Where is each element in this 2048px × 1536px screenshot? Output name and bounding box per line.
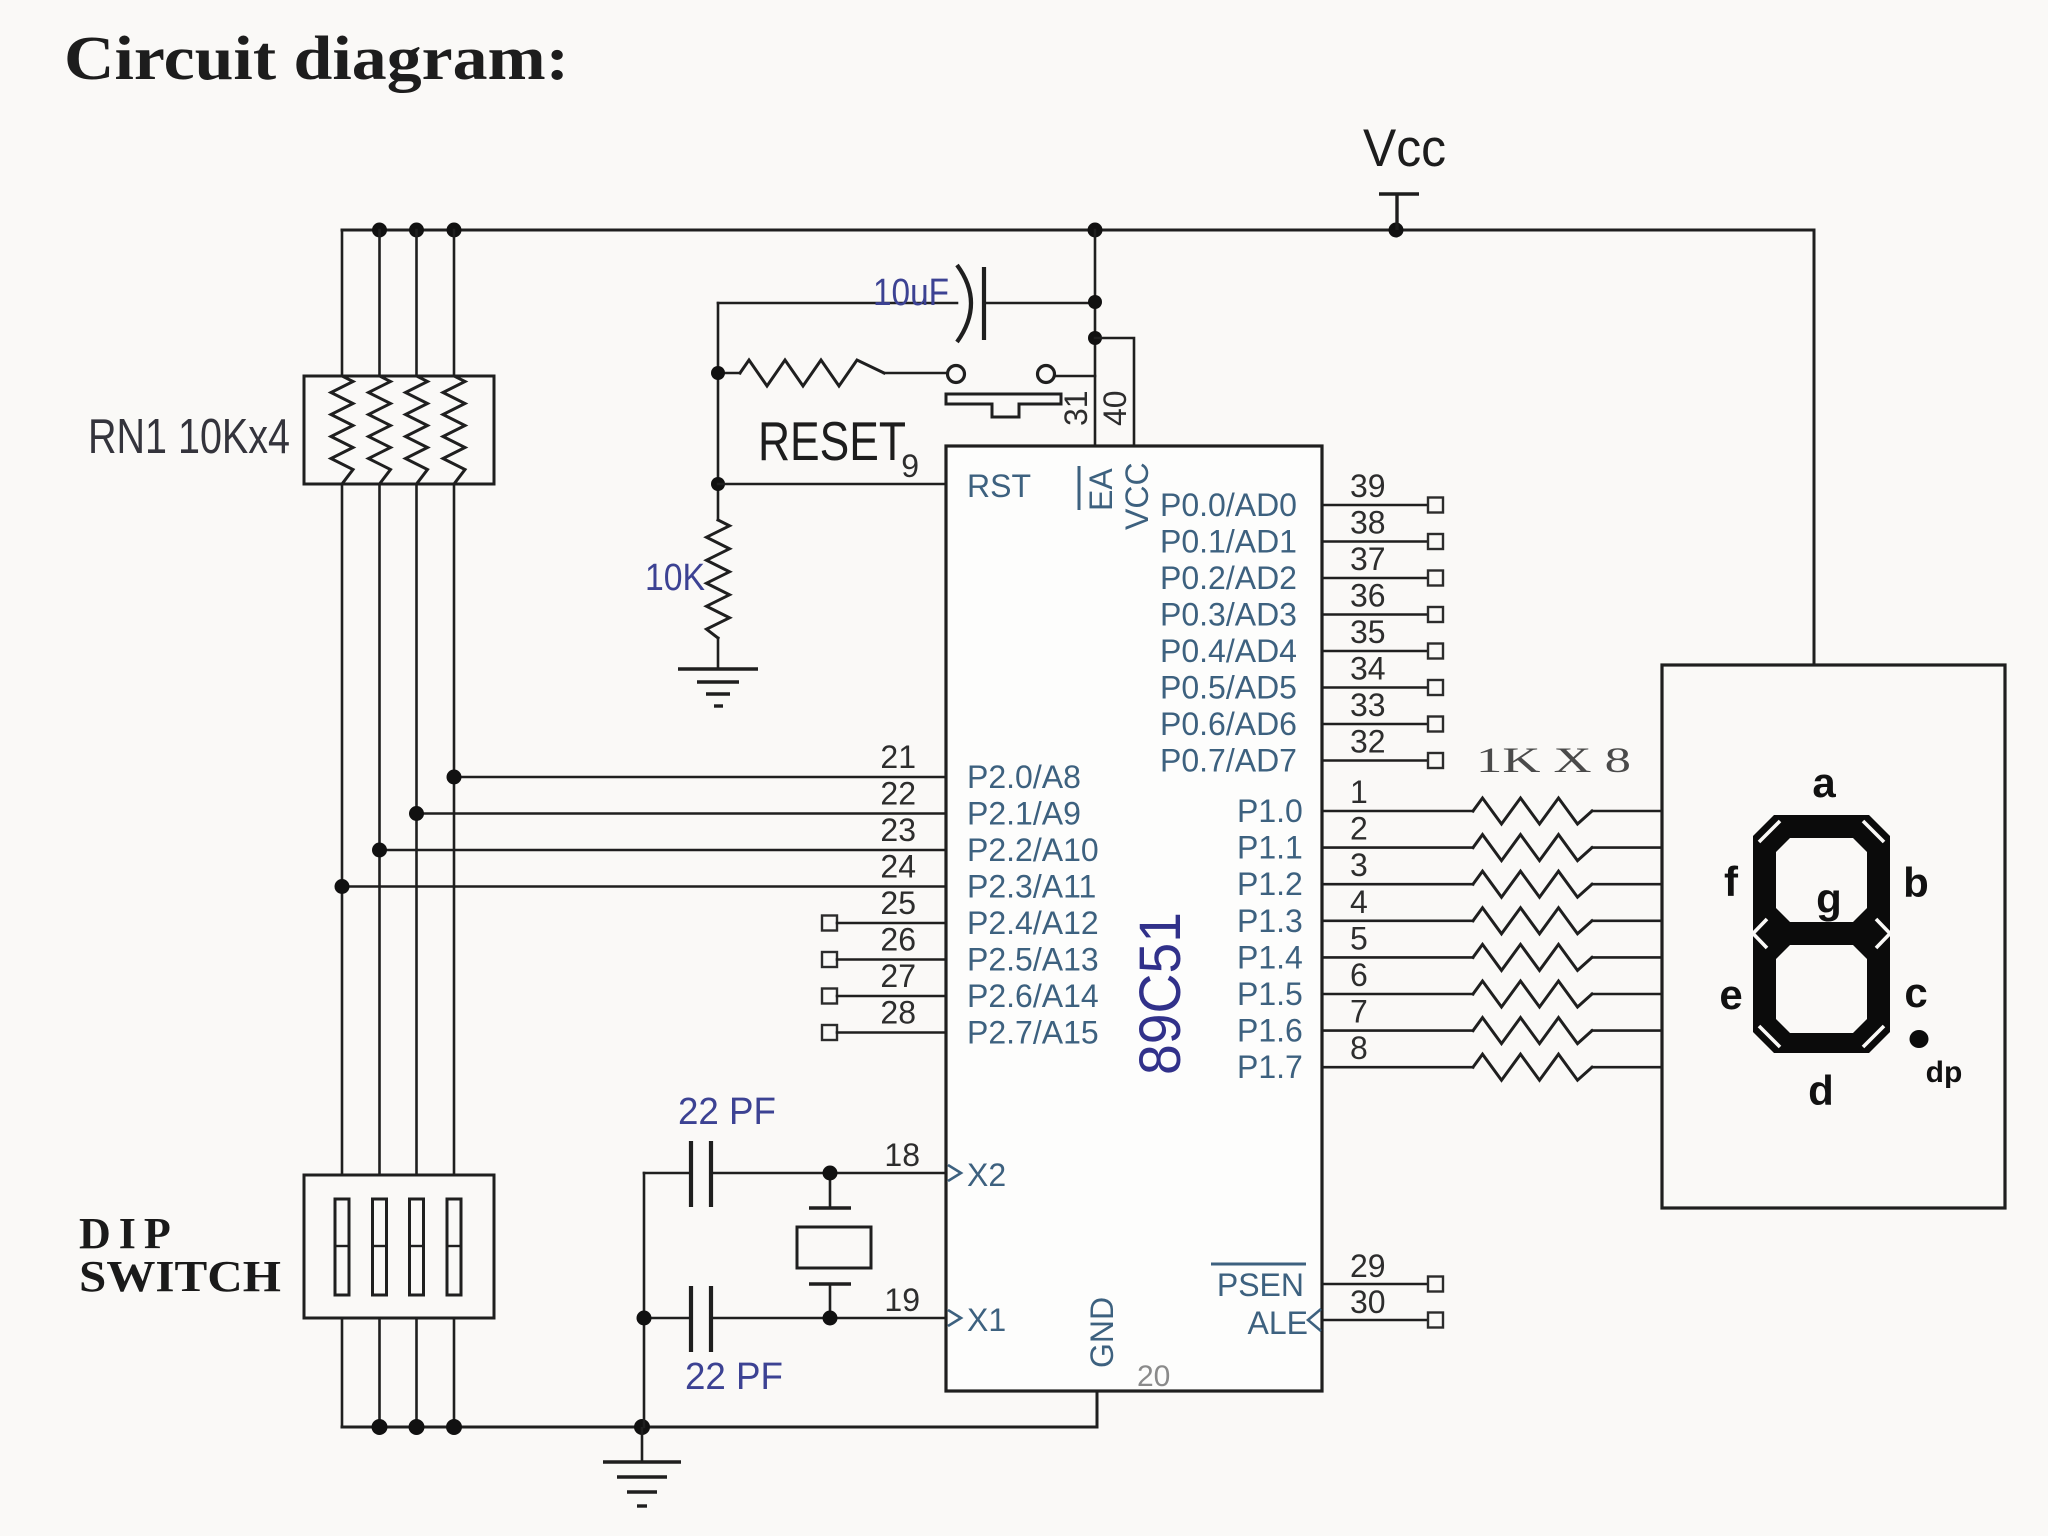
svg-text:P2.7/A15: P2.7/A15 — [967, 1015, 1099, 1051]
wire resistor row 5 to display — [1592, 956, 1662, 959]
wire EA pin31 vertical — [1094, 230, 1097, 446]
node Vcc bus junction 1 — [372, 223, 387, 238]
pin 7 P1.6 lead — [1237, 994, 1473, 1049]
svg-text:P0.4/AD4: P0.4/AD4 — [1160, 633, 1297, 669]
wire column 4 DIP switch to ground bus — [453, 1318, 456, 1427]
svg-text:P1.7: P1.7 — [1237, 1049, 1303, 1085]
svg-text:P0.6/AD6: P0.6/AD6 — [1160, 706, 1297, 742]
pin 2 P1.1 lead — [1237, 811, 1473, 866]
svg-text:31: 31 — [1058, 390, 1094, 426]
node Vcc bus junction 5 — [1389, 223, 1404, 238]
node column 2 / pin23 junction — [372, 843, 387, 858]
svg-text:P1.3: P1.3 — [1237, 903, 1303, 939]
wire resistor row 2 to display — [1592, 846, 1662, 849]
wire ground bus (bottom horizontal) — [342, 1391, 1097, 1427]
pin 6 P1.5 lead — [1237, 957, 1473, 1012]
svg-text:20: 20 — [1137, 1360, 1170, 1393]
svg-text:P0.0/AD0: P0.0/AD0 — [1160, 487, 1297, 523]
svg-text:d: d — [1808, 1067, 1834, 1114]
svg-text:RST: RST — [967, 468, 1031, 504]
resistor 1K (row 1) — [1473, 798, 1592, 824]
node Vcc bus junction 2 — [409, 223, 424, 238]
wire resistor row 6 to display — [1592, 993, 1662, 996]
resistor RN1 element 4 — [443, 376, 465, 484]
svg-text:a: a — [1812, 759, 1836, 806]
svg-text:P1.6: P1.6 — [1237, 1013, 1303, 1049]
svg-text:P0.2/AD2: P0.2/AD2 — [1160, 560, 1297, 596]
svg-text:Circuit diagram:: Circuit diagram: — [64, 25, 569, 93]
resistor RN1 element 1 — [331, 376, 353, 484]
pin 30 ALE lead and pad — [1248, 1284, 1443, 1341]
pin 18 X2 — [884, 1137, 1006, 1193]
svg-text:Vcc: Vcc — [1363, 119, 1446, 178]
svg-text:39: 39 — [1350, 468, 1386, 504]
svg-text:89C51: 89C51 — [1128, 912, 1193, 1075]
svg-text:6: 6 — [1350, 957, 1368, 993]
resistor 1K (row 8) — [1473, 1054, 1592, 1080]
DIP switch (box) — [304, 1175, 494, 1318]
svg-text:7: 7 — [1350, 994, 1368, 1030]
svg-text:X1: X1 — [967, 1302, 1006, 1338]
svg-text:VCC: VCC — [1119, 462, 1155, 530]
pin 27 P2.6/A14 — [822, 958, 1099, 1014]
svg-text:24: 24 — [880, 849, 916, 885]
wire RST node vertical — [717, 303, 720, 520]
wire resistor row 8 to display — [1592, 1066, 1662, 1069]
pin 34 P0.5/AD5 lead and pad — [1160, 651, 1443, 706]
svg-text:P2.2/A10: P2.2/A10 — [967, 832, 1099, 868]
svg-text:PSEN: PSEN — [1217, 1267, 1304, 1303]
pin 22 P2.1/A9 — [880, 776, 1080, 832]
svg-text:DIP: DIP — [79, 1209, 179, 1258]
node EA line / capacitor junction — [1088, 295, 1102, 309]
svg-text:P0.5/AD5: P0.5/AD5 — [1160, 670, 1297, 706]
pin 38 P0.1/AD1 lead and pad — [1160, 505, 1443, 560]
resistor RN1 element 2 — [369, 376, 391, 484]
wire column 4 RN1 to DIP switch — [453, 484, 456, 1175]
wire column 3 RN1 to DIP switch — [415, 484, 418, 1175]
7-segment digit (segments a-g) — [1753, 815, 1890, 1053]
pin 35 P0.4/AD4 lead and pad — [1160, 614, 1443, 669]
crystal XTAL — [797, 1173, 871, 1318]
capacitor 10uF lead (right) — [984, 302, 1095, 305]
wire VCC pin40 branch — [1095, 338, 1134, 446]
resistor 1K (row 7) — [1473, 1018, 1592, 1044]
capacitor 22PF (bottom) — [691, 1286, 711, 1352]
capacitor 22PF (top) — [691, 1141, 711, 1207]
wire X2 line (pin 18) — [644, 1172, 691, 1175]
ground symbol (below 10K) — [678, 669, 758, 706]
wire X1 line (pin 19) — [644, 1317, 691, 1320]
svg-text:P2.4/A12: P2.4/A12 — [967, 905, 1099, 941]
svg-text:P2.0/A8: P2.0/A8 — [967, 759, 1081, 795]
push button RESET (terminals) — [948, 366, 965, 383]
svg-text:b: b — [1903, 859, 1929, 906]
pin 25 P2.4/A12 — [822, 885, 1099, 941]
pin 37 P0.2/AD2 lead and pad — [1160, 541, 1443, 596]
svg-text:8: 8 — [1350, 1030, 1368, 1066]
svg-text:X2: X2 — [967, 1157, 1006, 1193]
pin 19 X1 — [884, 1282, 1006, 1338]
svg-text:9: 9 — [901, 448, 919, 484]
svg-text:32: 32 — [1350, 724, 1386, 760]
node column 4 / pin21 junction — [447, 770, 462, 785]
DIP switch actuator 3 — [410, 1199, 424, 1295]
node ground bus junction 3 — [446, 1419, 462, 1435]
svg-text:RN1 10Kx4: RN1 10Kx4 — [88, 410, 290, 464]
pin 1 P1.0 lead — [1237, 774, 1473, 829]
pin 21 P2.0/A8 — [880, 739, 1080, 795]
ground symbol (oscillator/ground bus) — [603, 1427, 681, 1506]
pin 33 P0.6/AD6 lead and pad — [1160, 687, 1443, 742]
svg-text:P2.6/A14: P2.6/A14 — [967, 978, 1099, 1014]
svg-text:40: 40 — [1097, 390, 1133, 426]
svg-text:26: 26 — [880, 922, 916, 958]
wire column 3 DIP switch to ground bus — [415, 1318, 418, 1427]
IC U1 89C51 (body) — [946, 446, 1322, 1391]
svg-text:e: e — [1719, 971, 1742, 1018]
node ground bus junction 2 — [409, 1419, 425, 1435]
pin label EA (rotated, overline) — [1079, 466, 1119, 511]
svg-text:10K: 10K — [645, 557, 705, 599]
pin 39 P0.0/AD0 lead and pad — [1160, 468, 1443, 523]
svg-text:P1.0: P1.0 — [1237, 793, 1303, 829]
svg-text:2: 2 — [1350, 811, 1368, 847]
svg-text:28: 28 — [880, 995, 916, 1031]
svg-text:SWITCH: SWITCH — [79, 1252, 281, 1301]
svg-text:GND: GND — [1084, 1297, 1120, 1368]
svg-text:36: 36 — [1350, 578, 1386, 614]
pin 36 P0.3/AD3 lead and pad — [1160, 578, 1443, 633]
svg-text:P1.2: P1.2 — [1237, 866, 1303, 902]
svg-text:dp: dp — [1926, 1056, 1963, 1089]
wire resistor row 3 to display — [1592, 883, 1662, 886]
capacitor 10uF (polarized) — [957, 265, 984, 342]
svg-text:ALE: ALE — [1248, 1305, 1308, 1341]
resistor 1K (row 4) — [1473, 908, 1592, 934]
resistor 1K (row 6) — [1473, 981, 1592, 1007]
pin 20 GND (rotated label) — [1084, 1297, 1170, 1393]
wire P2.3 pin24 to column 1 — [342, 885, 946, 888]
svg-text:1: 1 — [1350, 774, 1368, 810]
svg-text:33: 33 — [1350, 687, 1386, 723]
DIP switch actuator 4 — [447, 1199, 461, 1295]
resistor 1K (row 5) — [1473, 944, 1592, 970]
svg-text:3: 3 — [1350, 847, 1368, 883]
svg-text:c: c — [1904, 969, 1927, 1016]
svg-text:22 PF: 22 PF — [678, 1091, 776, 1133]
resistor 10K (vertical zigzag) — [707, 520, 730, 638]
svg-text:4: 4 — [1350, 884, 1368, 920]
svg-text:f: f — [1724, 858, 1739, 905]
svg-text:21: 21 — [880, 739, 916, 775]
pin 26 P2.5/A13 — [822, 922, 1099, 978]
node crystal / X2 junction — [823, 1166, 838, 1181]
svg-text:22 PF: 22 PF — [685, 1356, 783, 1398]
svg-text:RESET: RESET — [758, 410, 906, 472]
wire resistor row 7 to display — [1592, 1029, 1662, 1032]
wire column 1 DIP switch to ground bus — [341, 1318, 344, 1427]
svg-text:P2.5/A13: P2.5/A13 — [967, 942, 1099, 978]
wire resistor row 4 to display — [1592, 919, 1662, 922]
svg-text:38: 38 — [1350, 505, 1386, 541]
pin 24 P2.3/A11 — [880, 849, 1096, 905]
node RST pin junction — [711, 477, 725, 491]
pin 28 P2.7/A15 — [822, 995, 1099, 1051]
resistor RESET series (zigzag) — [718, 372, 740, 375]
svg-text:P1.4: P1.4 — [1237, 939, 1303, 975]
svg-text:g: g — [1816, 875, 1842, 922]
resistor 1K (row 2) — [1473, 835, 1592, 861]
pin 3 P1.2 lead — [1237, 847, 1473, 902]
svg-text:27: 27 — [880, 958, 916, 994]
wire P2.2 pin23 to column 2 — [380, 849, 947, 852]
node column 1 / pin24 junction — [335, 879, 350, 894]
node EA line / VCC branch junction — [1088, 331, 1102, 345]
wire pull-up column 4 (Vcc bus to RN1) — [453, 230, 456, 376]
svg-text:P1.1: P1.1 — [1237, 830, 1303, 866]
svg-text:EA: EA — [1083, 468, 1119, 511]
svg-text:P0.3/AD3: P0.3/AD3 — [1160, 597, 1297, 633]
push button RESET (bar) — [946, 394, 1061, 417]
wire button to EA line — [1056, 375, 1095, 378]
DIP switch actuator 2 — [373, 1199, 387, 1295]
svg-text:19: 19 — [884, 1282, 920, 1318]
wire RST to IC pin 9 — [718, 483, 946, 486]
svg-text:1K X 8: 1K X 8 — [1476, 740, 1631, 780]
wire Vcc bus (top horizontal) — [342, 230, 1814, 665]
svg-text:5: 5 — [1350, 920, 1368, 956]
node crystal / X1 junction — [823, 1311, 838, 1326]
7-segment slits — [1753, 821, 1890, 1047]
svg-text:P0.7/AD7: P0.7/AD7 — [1160, 743, 1297, 779]
pin 32 P0.7/AD7 lead and pad — [1160, 724, 1443, 779]
wire P2.1 pin22 to column 3 — [417, 812, 947, 815]
node column 3 / pin22 junction — [409, 806, 424, 821]
svg-text:P2.1/A9: P2.1/A9 — [967, 796, 1081, 832]
wire column 2 RN1 to DIP switch — [378, 484, 381, 1175]
svg-text:37: 37 — [1350, 541, 1386, 577]
node RST resistor junction — [711, 366, 725, 380]
7-segment display (box) — [1662, 665, 2005, 1208]
pin 5 P1.4 lead — [1237, 920, 1473, 975]
resistor RN1 element 3 — [406, 376, 428, 484]
svg-text:P2.3/A11: P2.3/A11 — [967, 869, 1096, 905]
wire pull-up column 3 (Vcc bus to RN1) — [415, 230, 418, 376]
svg-text:22: 22 — [880, 776, 916, 812]
power symbol Vcc — [1363, 119, 1446, 230]
svg-text:P1.5: P1.5 — [1237, 976, 1303, 1012]
decimal point dp — [1910, 1030, 1929, 1048]
wire resistor row 1 to display — [1592, 810, 1662, 813]
pin 8 P1.7 lead — [1237, 1030, 1473, 1085]
pin 23 P2.2/A10 — [880, 812, 1098, 868]
node Vcc bus junction 3 — [447, 223, 462, 238]
svg-text:23: 23 — [880, 812, 916, 848]
DIP switch actuator 1 — [335, 1199, 349, 1295]
wire pull-up column 1 (Vcc bus to RN1) — [341, 230, 344, 376]
svg-text:10uF: 10uF — [873, 272, 949, 314]
wire column 2 DIP switch to ground bus — [378, 1318, 381, 1427]
svg-text:P0.1/AD1: P0.1/AD1 — [1160, 524, 1297, 560]
svg-text:35: 35 — [1350, 614, 1386, 650]
svg-text:30: 30 — [1350, 1284, 1386, 1320]
svg-text:29: 29 — [1350, 1248, 1386, 1284]
node ground bus junction 1 — [372, 1419, 388, 1435]
resistor network RN1 10Kx4 (box) — [304, 376, 494, 484]
node Vcc bus junction 4 — [1088, 223, 1103, 238]
node caps common / X1 junction — [637, 1311, 652, 1326]
svg-text:34: 34 — [1350, 651, 1386, 687]
svg-text:18: 18 — [884, 1137, 920, 1173]
resistor 1K (row 3) — [1473, 871, 1592, 897]
capacitor 10uF lead (left) — [718, 302, 957, 305]
node ground bus junction 4 — [634, 1419, 650, 1435]
wire pull-up column 2 (Vcc bus to RN1) — [378, 230, 381, 376]
pin 29 PSEN lead and pad — [1211, 1248, 1443, 1303]
wire P2.0 pin21 to column 4 — [454, 776, 946, 779]
pin 4 P1.3 lead — [1237, 884, 1473, 939]
wire caps common vertical — [643, 1173, 646, 1427]
svg-text:25: 25 — [880, 885, 916, 921]
wire column 1 RN1 to DIP switch — [341, 484, 344, 1175]
